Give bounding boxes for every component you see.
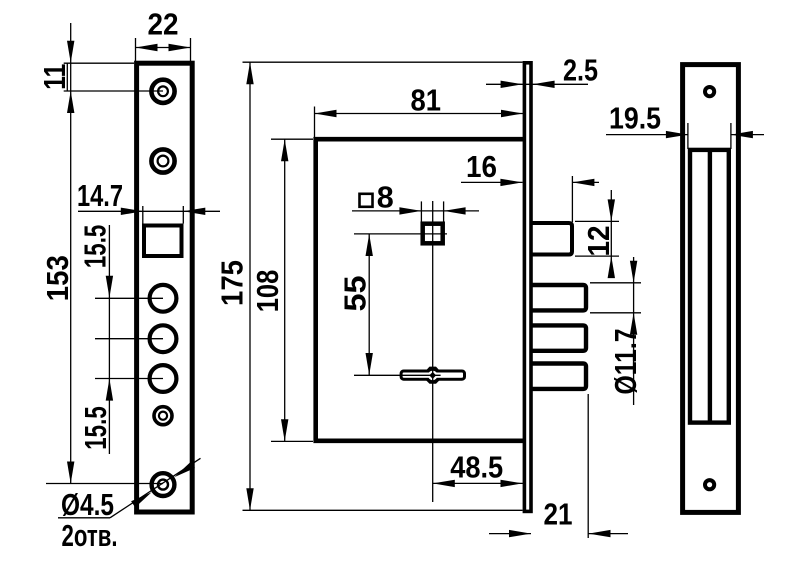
arrow 2.5 right [533,81,555,88]
ext line 12 bottom [575,255,619,257]
dim line 11.7 [633,257,635,405]
dim line 81 [315,113,524,115]
arrow 11.7 bottom [630,313,637,335]
dead bolt 2 [531,325,586,350]
dead bolt 3 [531,364,586,389]
leader bolt hole 1 [95,297,163,299]
svg-text:15.5: 15.5 [78,225,113,269]
dim line 21 left part [489,533,531,535]
latch bolt [531,223,572,255]
arrow 22 right [169,44,191,51]
ext line 11.7 top [590,282,641,284]
svg-text:22: 22 [148,7,179,42]
ext line 19.5 left [687,123,689,149]
ext line 16 [571,176,573,222]
ext line 19.5 right [730,123,732,149]
strike plate bottom hole [705,480,714,489]
arrow 16 right [572,179,594,186]
arrow 108 bottom [281,419,288,441]
svg-text:16: 16 [466,149,497,184]
key lever shape [401,367,464,384]
screw hole 2 inner ring [158,156,169,167]
small hole inner ring [159,412,167,420]
dim line 12 [610,190,612,276]
svg-text:153: 153 [40,255,75,301]
dim line 16 left part [461,181,523,183]
strike plate slot divider [708,150,712,422]
dim line 11/153 [70,23,72,484]
arrow 22 left [136,44,158,51]
arrow dia4.5 lower [131,492,152,507]
ext line 21 [587,394,589,538]
svg-text:Ø11.7: Ø11.7 [608,329,643,395]
spindle square hole 8x8 [423,224,443,244]
svg-text:175: 175 [215,260,250,306]
arrow 11.7 top [630,261,637,283]
leader bolt hole 2 [95,338,163,340]
screw hole bottom outer ring [152,473,175,496]
arrow 48.5 right [501,480,523,487]
ext line 8 right [443,201,445,221]
dim line square 8 [352,210,479,212]
arrow 19.5 right [731,131,753,138]
horizontal centreline spindle / 55 ext [354,233,447,235]
arrow 12 bottom [608,256,615,278]
arrow 15.5 lower [106,379,113,401]
horizontal centreline key / 55 ext [354,374,441,376]
ext line 175 bottom [243,509,523,511]
small hole outer ring [154,407,172,425]
dim line 19.5 right part [731,134,764,136]
ext line 12 top [575,220,619,222]
strike plate slot [690,150,729,423]
svg-text:55: 55 [338,276,373,312]
strike plate top hole [705,87,714,96]
strike plate outline [683,65,739,513]
arrow 153 bottom [67,462,74,484]
arrow 8 right [444,207,466,214]
arrow 2.5 left [501,81,523,88]
svg-text:2отв.: 2отв. [62,518,118,553]
svg-text:48.5: 48.5 [450,450,503,485]
svg-text:19.5: 19.5 [609,100,661,135]
arrow 19.5 left [666,131,688,138]
arrow 21 right [589,530,611,537]
svg-text:Ø4.5: Ø4.5 [61,487,114,522]
bolt hole 1 [150,285,177,312]
dim line 19.5 left part [606,134,688,136]
vertical centreline key lower [432,365,434,502]
arrow 48.5 left [433,480,455,487]
leader to bottom hole centre [46,483,163,485]
arrow 81 right [501,110,523,117]
dim line 21 right part [589,533,629,535]
svg-text:8: 8 [377,180,394,215]
svg-text:21: 21 [544,497,573,532]
svg-text:2.5: 2.5 [563,53,598,88]
ext line 8 left [420,201,422,221]
screw hole top outer ring [151,80,174,103]
arrow 15.5 upper [106,276,113,298]
arrow 21 left [509,530,531,537]
square cutout in faceplate [144,226,182,257]
arrow 12 top [608,199,615,221]
arrow 11 top [67,41,74,63]
svg-text:15.5: 15.5 [78,406,113,450]
ext line plate top [64,62,134,64]
leader line dia 4.5 [110,458,201,518]
ext line 175 top [243,61,523,63]
underline text 11 [66,64,68,91]
arrow 81 left [315,110,337,117]
arrow 14.7 left [121,208,143,215]
arrow 108 top [281,139,288,161]
ext line 11.7 bottom [590,312,641,314]
ext line 108 top [271,138,313,140]
dim line 175 [249,62,251,510]
faceplate front view outline [137,63,193,512]
dim line 22 [136,47,191,49]
svg-text:81: 81 [410,83,441,118]
dim line 48.5 [433,482,523,484]
dim line 15.5 chain [108,225,110,454]
svg-text:14.7: 14.7 [77,178,123,213]
dim line 55 [368,234,370,375]
dim line 108 [284,139,286,442]
dim line 2.5 [486,83,588,85]
arrow 11/153 [67,91,74,113]
leader to top hole centre [64,90,163,92]
square symbol of dim 8 [360,194,373,207]
arrow 55 bottom [366,353,373,375]
arrow 175 bottom [246,488,253,510]
vertical centreline spindle-key upper [432,201,434,365]
ext line 108 bottom [271,440,313,442]
bolt hole 3 [150,365,177,392]
arrow 16 left [500,179,522,186]
bolt hole 2 [150,325,177,352]
lock body outline [316,139,523,441]
ext line 14.7 left [142,206,144,224]
dim line 16 right part [572,181,599,183]
dim line 14.7 [78,210,220,212]
arrow dia4.5 upper [174,462,195,477]
dead bolt 1 [531,285,586,310]
leader bolt hole 3 [95,378,163,380]
screw hole 2 outer ring [151,149,174,172]
svg-text:108: 108 [250,270,285,313]
arrow 55 top [366,234,373,256]
arrow 175 top [246,62,253,84]
arrow 14.7 right [183,208,205,215]
faceplate edge view (2.5 thick bar) [524,63,531,512]
ext line 14.7 right [182,206,184,224]
screw hole top inner ring [158,86,168,96]
ext line 81 left [314,107,316,138]
ext line 22 right [190,38,192,63]
underline dia 4.5 [58,517,110,519]
arrow 8 left [399,207,421,214]
screw hole bottom inner ring [158,480,168,490]
key centre diamond [429,372,436,379]
ext line 22 left [135,38,137,63]
